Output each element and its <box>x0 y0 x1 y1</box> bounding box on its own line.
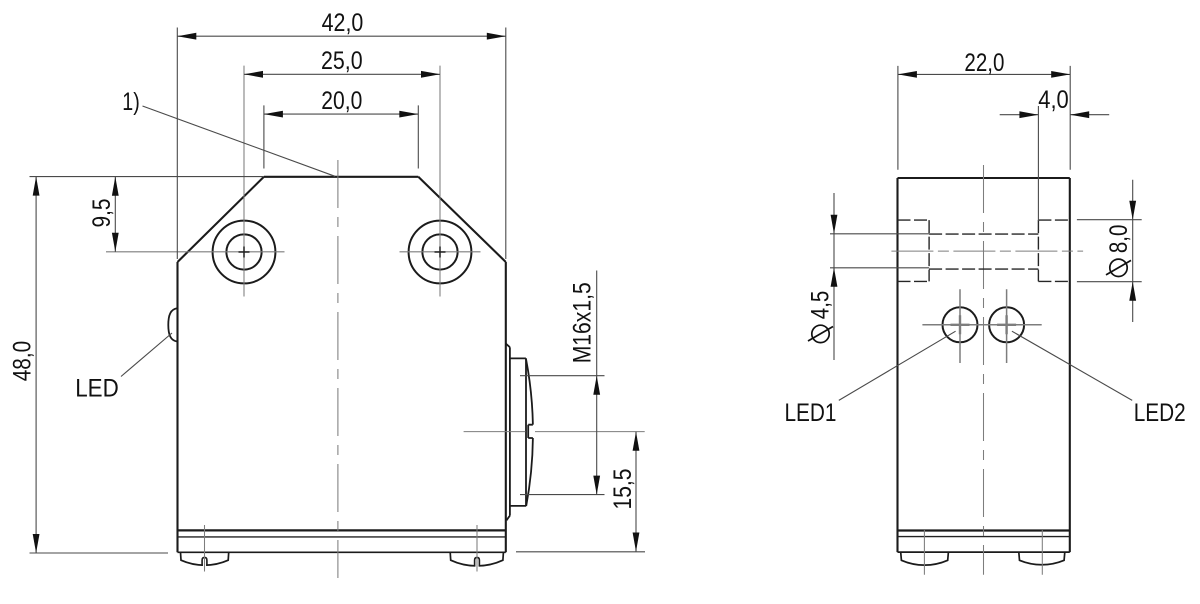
svg-text:48,0: 48,0 <box>8 341 36 382</box>
svg-text:4,0: 4,0 <box>1038 86 1069 114</box>
svg-text:25,0: 25,0 <box>321 47 363 75</box>
svg-text:8,0: 8,0 <box>1105 225 1133 254</box>
svg-text:LED: LED <box>75 375 119 403</box>
svg-text:4,5: 4,5 <box>807 291 835 320</box>
svg-text:LED2: LED2 <box>1134 399 1186 427</box>
svg-text:M16x1,5: M16x1,5 <box>569 282 597 363</box>
svg-text:15,5: 15,5 <box>609 469 637 510</box>
svg-text:1): 1) <box>122 88 140 116</box>
svg-text:LED1: LED1 <box>785 399 837 427</box>
svg-text:20,0: 20,0 <box>321 87 362 115</box>
svg-text:9,5: 9,5 <box>88 199 116 228</box>
svg-text:22,0: 22,0 <box>964 49 1004 77</box>
svg-text:42,0: 42,0 <box>322 9 364 37</box>
